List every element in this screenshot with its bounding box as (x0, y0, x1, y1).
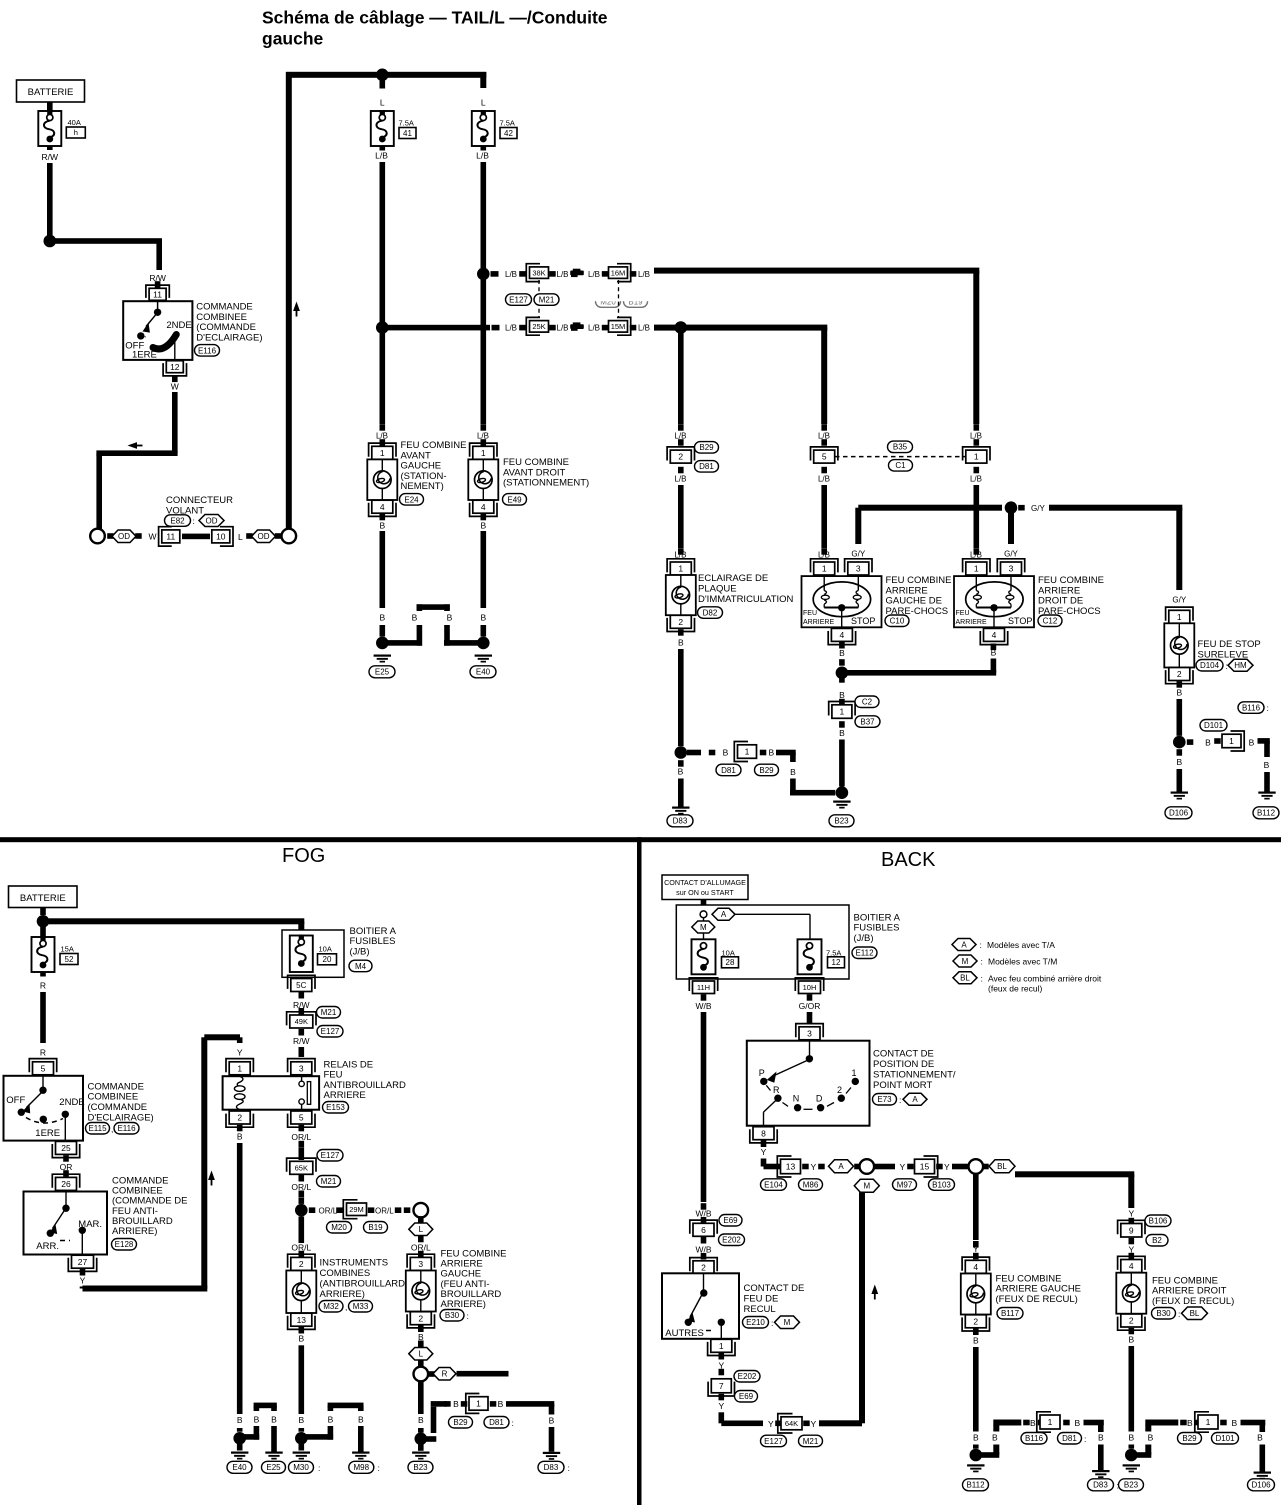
svg-text:B: B (723, 748, 729, 758)
rear fog relay connector 1 (229, 1062, 250, 1075)
dashed link B35 C1 (835, 456, 965, 458)
svg-text:D82: D82 (703, 608, 718, 617)
svg-text:M: M (784, 1318, 791, 1327)
backup lamp right B30 connector 2 (1121, 1314, 1142, 1327)
svg-text:B30: B30 (1156, 1309, 1171, 1318)
ground E40 (475, 655, 492, 657)
svg-text:B: B (678, 767, 684, 777)
svg-text:B: B (1128, 1335, 1134, 1345)
svg-text:1: 1 (719, 1341, 724, 1351)
svg-text:COMBINEE: COMBINEE (88, 1092, 139, 1103)
svg-text:E127: E127 (321, 1027, 340, 1036)
svg-text:B: B (1128, 1432, 1134, 1442)
svg-text::: : (899, 1095, 901, 1105)
svg-text:L/B: L/B (638, 324, 650, 333)
connector pair row1 ovals (538, 280, 540, 318)
svg-text:B: B (298, 1415, 304, 1425)
svg-text:B: B (1098, 1433, 1104, 1443)
wire to fuse 41 (380, 80, 386, 89)
svg-text:R: R (40, 980, 46, 990)
svg-text:Y: Y (944, 1162, 950, 1172)
section separator vertical (637, 837, 642, 1505)
wire R down to switch (40, 972, 46, 977)
terminal circle W (90, 529, 105, 544)
ground E40 FOG (231, 1452, 248, 1454)
svg-text:38K: 38K (532, 268, 545, 277)
svg-text:(feux de recul): (feux de recul) (988, 983, 1042, 993)
connector 2 license plate harness (670, 450, 691, 463)
wire B backup lamp left down (973, 1347, 979, 1432)
front left combo lamp E24 connector 1 (372, 446, 393, 459)
svg-text:L/B: L/B (557, 324, 569, 333)
svg-text:D83: D83 (673, 817, 688, 826)
svg-text:R/W: R/W (293, 1036, 310, 1046)
svg-text:E115: E115 (88, 1124, 107, 1133)
svg-text:B: B (418, 1415, 424, 1425)
svg-text:B: B (1030, 1418, 1036, 1428)
svg-text:OD: OD (206, 516, 218, 525)
svg-text:2: 2 (299, 1259, 304, 1269)
inline connector 1 D101-B116 (1187, 739, 1194, 745)
svg-text:ARRIERE: ARRIERE (324, 1090, 366, 1101)
svg-text:B106: B106 (1149, 1217, 1168, 1226)
svg-text:CONTACT DE: CONTACT DE (873, 1049, 934, 1060)
svg-text:E69: E69 (723, 1216, 738, 1225)
rear bumper lamp C12 connector 1 (966, 562, 987, 575)
junction ground E25 node (376, 637, 389, 650)
svg-text:2: 2 (1177, 669, 1182, 679)
G/Y net horizontal (858, 505, 1002, 511)
inline connector 1 D81-B29 (738, 745, 757, 759)
svg-text:W: W (149, 532, 157, 542)
svg-text:ARRIERE): ARRIERE) (320, 1289, 365, 1300)
svg-text:OR/L: OR/L (375, 1206, 394, 1215)
svg-text:L/B: L/B (476, 151, 489, 161)
svg-text:B: B (1249, 737, 1255, 747)
svg-text:B29: B29 (1182, 1434, 1197, 1443)
svg-text:C10: C10 (890, 617, 905, 626)
connector 65K (290, 1161, 313, 1174)
J/B fuse box BACK (676, 905, 849, 979)
svg-text::: : (568, 1463, 570, 1473)
connector 13 (781, 1159, 801, 1174)
svg-text::: : (378, 1463, 380, 1473)
hexagon BL branch (982, 1164, 989, 1170)
svg-text:L/B: L/B (638, 270, 650, 279)
svg-text:42: 42 (504, 129, 513, 138)
connector 12 light switch (166, 361, 183, 373)
license plate lamp D82 connector 1 (670, 562, 691, 575)
svg-text:Y: Y (811, 1162, 817, 1172)
svg-text:E112: E112 (855, 949, 874, 958)
svg-text:POINT MORT: POINT MORT (873, 1080, 932, 1091)
section separator horizontal (0, 837, 1281, 842)
wire spiral cable (182, 534, 210, 540)
branch to B29 D81 inline connector (687, 750, 701, 756)
connector 26 fog switch (56, 1177, 77, 1190)
svg-text:L/B: L/B (674, 431, 686, 440)
svg-text:2: 2 (701, 1262, 706, 1272)
hexagon OD right (246, 533, 253, 539)
svg-text:5: 5 (41, 1063, 46, 1073)
svg-text:sur ON ou START: sur ON ou START (676, 888, 734, 897)
wire G/Y C10 pin3 up (855, 508, 861, 544)
svg-text:POSITION DE: POSITION DE (873, 1059, 934, 1070)
svg-text:HM: HM (1234, 661, 1247, 670)
svg-text:M4: M4 (355, 962, 367, 971)
svg-text:E127: E127 (321, 1151, 340, 1160)
connector 25 light switch FOG (56, 1141, 77, 1154)
svg-text:1: 1 (974, 452, 979, 462)
connector 49K (290, 1015, 313, 1028)
svg-text:ARRIERE): ARRIERE) (112, 1226, 157, 1237)
svg-text:D81: D81 (489, 1418, 504, 1427)
svg-text:OR/L: OR/L (291, 1182, 311, 1192)
backup lamp switch E210 box (662, 1273, 739, 1339)
svg-text:49K: 49K (295, 1017, 308, 1026)
svg-text::: : (1178, 1309, 1180, 1319)
svg-text:BACK: BACK (881, 849, 936, 871)
svg-text:M97: M97 (897, 1180, 913, 1189)
rear bumper lamp C10 connector 4 (831, 628, 852, 641)
svg-text::: : (980, 940, 982, 950)
wire license plate down (678, 328, 684, 424)
wire L/B fuse41 down (380, 146, 386, 151)
fuse 40A h (38, 111, 61, 146)
svg-text:Y: Y (900, 1162, 906, 1172)
fuse 7.5A 12 (798, 939, 822, 974)
svg-text:B: B (1187, 1418, 1193, 1428)
svg-text:Y: Y (768, 1419, 774, 1429)
svg-text:(ANTIBROUILLARD: (ANTIBROUILLARD (320, 1279, 406, 1290)
bridge to D83 FOG (421, 1436, 437, 1442)
svg-text:B: B (973, 1432, 979, 1442)
ignition switch box (662, 875, 748, 900)
svg-text::: : (1084, 1434, 1086, 1444)
svg-text:7.5A: 7.5A (399, 119, 414, 128)
connector pair row1 faded ovals M20 B19 (596, 296, 648, 308)
svg-text:16M: 16M (611, 268, 626, 277)
svg-text:1: 1 (852, 1068, 857, 1078)
wire Y row mid (875, 1164, 896, 1170)
svg-text::: : (771, 1318, 773, 1328)
svg-text:E25: E25 (266, 1463, 281, 1472)
connector 10 spiral cable (212, 530, 230, 543)
svg-text:CONTACT D'ALLUMAGE: CONTACT D'ALLUMAGE (664, 878, 746, 887)
svg-text:B: B (1257, 1433, 1263, 1443)
ground E25 FOG (265, 1452, 282, 1454)
front right combo lamp E49 connector 1 (473, 446, 494, 459)
connector 64K (781, 1417, 802, 1430)
wire L/B fuse42 down (481, 146, 487, 151)
svg-text:1: 1 (1229, 736, 1234, 746)
svg-text:L/B: L/B (376, 431, 388, 440)
svg-text:OD: OD (118, 532, 130, 541)
svg-text:B: B (549, 1415, 555, 1425)
svg-text:3: 3 (856, 564, 861, 574)
svg-text:h: h (74, 128, 78, 137)
svg-text:A: A (961, 940, 967, 949)
terminal circle BL branch (969, 1159, 984, 1174)
svg-text:B116: B116 (1242, 703, 1261, 712)
wire B license plate down (678, 649, 684, 746)
svg-text:D'ECLAIRAGE): D'ECLAIRAGE) (196, 333, 262, 344)
svg-text:L/B: L/B (970, 431, 982, 440)
svg-text:B: B (1264, 760, 1270, 770)
wire B lamp E24 down (380, 531, 386, 608)
connector 8 park switch (753, 1127, 774, 1140)
license plate lamp D82 connector 2 (670, 615, 691, 628)
svg-text:2: 2 (1129, 1316, 1134, 1326)
svg-text:G/Y: G/Y (851, 550, 865, 559)
svg-text:2NDE: 2NDE (166, 320, 191, 331)
svg-text:B: B (839, 648, 845, 658)
ground E25 (374, 655, 391, 657)
svg-text:(FEUX DE RECUL): (FEUX DE RECUL) (1152, 1296, 1234, 1307)
svg-text:B: B (298, 1334, 304, 1344)
hexagon OD left (107, 533, 114, 539)
connector 5 light switch FOG (33, 1062, 54, 1075)
rear bumper lamp C12 body (954, 576, 1034, 627)
svg-text::: : (1267, 703, 1269, 713)
svg-text:10H: 10H (803, 983, 817, 992)
svg-text:D106: D106 (1169, 809, 1189, 818)
ground B23 (833, 801, 850, 803)
fuse 42 7.5A (472, 111, 495, 146)
junction row2 on fuse41 wire (376, 321, 389, 334)
wire B to ground D106 (1177, 749, 1183, 756)
svg-text:2: 2 (837, 1085, 842, 1095)
svg-text:B: B (480, 521, 486, 531)
junction B23 FOG node (415, 1433, 428, 1446)
svg-text:B23: B23 (834, 817, 849, 826)
svg-text:26: 26 (61, 1179, 71, 1189)
svg-text:B103: B103 (932, 1180, 951, 1189)
rear fog lamp relay E153 (223, 1076, 320, 1110)
svg-text:L/B: L/B (477, 431, 489, 440)
svg-text:B: B (678, 638, 684, 648)
svg-text:2: 2 (973, 1316, 978, 1326)
svg-text:M86: M86 (803, 1180, 819, 1189)
svg-text:BATTERIE: BATTERIE (28, 87, 74, 98)
svg-text:D104: D104 (1200, 661, 1220, 670)
svg-text:gauche: gauche (262, 29, 324, 49)
bridge wire B C10-C12 grounds (842, 670, 996, 676)
svg-text:1ERE: 1ERE (35, 1128, 60, 1139)
junction stop lamp ground node (1173, 736, 1186, 749)
wire C10 pin1 down (821, 485, 827, 548)
bridge to M98 (301, 1434, 333, 1440)
svg-text:4: 4 (992, 630, 997, 640)
connector 10H (799, 981, 821, 994)
svg-text:11: 11 (153, 289, 162, 299)
svg-text:D81: D81 (721, 766, 736, 775)
svg-text:7.5A: 7.5A (826, 948, 841, 957)
wire B stop lamp down (1177, 699, 1183, 736)
svg-text:L: L (380, 98, 385, 108)
hexagon R with feed (428, 1371, 435, 1377)
svg-text:28: 28 (726, 958, 735, 967)
svg-text:B29: B29 (453, 1418, 468, 1427)
row2 L/B inline connectors (382, 325, 490, 331)
svg-text:BL: BL (997, 1162, 1007, 1171)
svg-text:E104: E104 (764, 1180, 783, 1189)
ground M98 (352, 1452, 369, 1454)
svg-text:(COMMANDE: (COMMANDE (88, 1102, 148, 1113)
backup lamp right B30 (1116, 1273, 1146, 1314)
svg-text:A: A (721, 910, 727, 919)
svg-text:E73: E73 (877, 1095, 892, 1104)
svg-text:2NDE: 2NDE (59, 1097, 84, 1108)
svg-text:ARRIERE: ARRIERE (956, 619, 987, 626)
right column connector 1 (966, 450, 987, 463)
wire B relay pin2 down (237, 1143, 243, 1414)
svg-text:B: B (790, 767, 796, 777)
connector 1 backup switch (711, 1339, 732, 1352)
svg-text:13: 13 (297, 1315, 307, 1325)
wire G/OR down (807, 1012, 813, 1024)
svg-text:D101: D101 (1215, 1434, 1235, 1443)
svg-text:4: 4 (481, 502, 486, 512)
svg-text:Y: Y (811, 1419, 817, 1429)
svg-text:29M: 29M (349, 1205, 364, 1214)
hexagon M internal (703, 918, 705, 921)
hexagon A row (829, 1160, 854, 1173)
svg-text::: : (467, 1311, 469, 1321)
svg-text:13: 13 (786, 1162, 796, 1172)
ovals E127 M21 BACK (761, 1435, 787, 1447)
svg-text:E202: E202 (738, 1372, 757, 1381)
svg-text:D101: D101 (1204, 721, 1224, 730)
svg-text:AUTRES: AUTRES (665, 1328, 704, 1339)
svg-text:M21: M21 (539, 295, 555, 304)
wire W to spiral cable (172, 392, 178, 453)
svg-text:Schéma de câblage — TAIL/L —/C: Schéma de câblage — TAIL/L —/Conduite (262, 8, 608, 28)
svg-text:B2: B2 (1152, 1236, 1162, 1245)
svg-text:ECLAIRAGE DE: ECLAIRAGE DE (698, 573, 768, 584)
svg-text:N: N (793, 1094, 800, 1104)
svg-text:B112: B112 (966, 1481, 985, 1490)
svg-text:(J/B): (J/B) (854, 933, 874, 944)
svg-text:L/B: L/B (818, 474, 830, 483)
svg-text:5: 5 (822, 452, 827, 462)
svg-text:2: 2 (418, 1313, 423, 1323)
instruments wire down (299, 1217, 305, 1244)
svg-text:C12: C12 (1043, 617, 1058, 626)
svg-text:STOP: STOP (1008, 616, 1032, 626)
wire Y fog switch to relay (80, 1287, 86, 1289)
svg-text:15A: 15A (61, 945, 74, 954)
svg-text:1: 1 (678, 564, 683, 574)
svg-text:M21: M21 (803, 1437, 819, 1446)
svg-text:ARRIERE: ARRIERE (803, 619, 834, 626)
wire M down to 64K row (859, 1192, 865, 1423)
junction B23 node top (836, 786, 849, 799)
svg-text:M: M (700, 923, 707, 932)
svg-text:FUSIBLES: FUSIBLES (350, 936, 396, 947)
front right combo lamp E49 connector 4 (473, 500, 494, 513)
terminal circle L bus (282, 529, 297, 544)
svg-text:4: 4 (973, 1262, 978, 1272)
svg-text:INSTRUMENTS: INSTRUMENTS (320, 1257, 389, 1268)
svg-text:4: 4 (1129, 1261, 1134, 1271)
svg-text:E40: E40 (476, 668, 491, 677)
rear bumper lamp C12 connector 4 (984, 628, 1005, 641)
row1 corner down to connector 1 (973, 271, 979, 424)
svg-text:2: 2 (678, 452, 683, 462)
svg-text:1: 1 (840, 707, 845, 717)
stop lamp HM connector 2 (1169, 668, 1190, 681)
ground B23 BACK (1123, 1464, 1140, 1466)
svg-text:Y: Y (718, 1401, 724, 1411)
svg-text:1: 1 (380, 448, 385, 458)
svg-text:A: A (838, 1162, 844, 1171)
svg-text:BATTERIE: BATTERIE (20, 893, 66, 904)
junction B112 node (970, 1449, 983, 1462)
ground D83 BACK (1092, 1470, 1109, 1472)
svg-text:RECUL: RECUL (744, 1304, 776, 1315)
svg-text:41: 41 (403, 129, 412, 138)
svg-text:ARR.: ARR. (36, 1241, 59, 1252)
svg-text:Y: Y (80, 1275, 86, 1285)
inline connector 1 B116-D81 (1040, 1415, 1060, 1429)
svg-text:10A: 10A (722, 948, 735, 957)
svg-text:2: 2 (237, 1113, 242, 1123)
svg-text:Y: Y (1128, 1208, 1134, 1218)
connector 11H (693, 981, 715, 994)
svg-text:Avec feu combiné arrière droit: Avec feu combiné arrière droit (988, 973, 1102, 983)
svg-text:12: 12 (170, 362, 180, 372)
svg-text:FEU DE: FEU DE (744, 1294, 779, 1305)
svg-text:CONTACT DE: CONTACT DE (744, 1283, 805, 1294)
backup lamp B117 connector 4 (965, 1260, 986, 1273)
svg-text:3: 3 (418, 1259, 423, 1269)
svg-text:D106: D106 (1251, 1481, 1271, 1490)
ovals row E104 M86 M97 B103 (761, 1179, 787, 1191)
svg-text:FEU COMBINE: FEU COMBINE (996, 1273, 1062, 1284)
wire W/B down (701, 1012, 707, 1202)
svg-text:NEMENT): NEMENT) (401, 481, 444, 492)
top bus horizontal (286, 72, 486, 78)
instrument cluster connector 2 (291, 1257, 312, 1270)
svg-text:Modèles avec T/A: Modèles avec T/A (987, 940, 1055, 950)
svg-text:9: 9 (1129, 1225, 1134, 1235)
svg-text:M30: M30 (293, 1463, 309, 1472)
wire Y backup lamp left (973, 1174, 979, 1240)
svg-text:M32: M32 (323, 1302, 339, 1311)
junction instruments tap (295, 1204, 308, 1217)
bridge from B23 to right (1131, 1452, 1151, 1458)
svg-text:PLAQUE: PLAQUE (698, 584, 737, 595)
svg-text:E116: E116 (198, 346, 217, 355)
svg-text:L: L (419, 1225, 424, 1234)
svg-text:2: 2 (678, 617, 683, 627)
svg-text:11: 11 (166, 532, 175, 542)
svg-text:OR/L: OR/L (319, 1206, 338, 1215)
wire B C10 to C2 connector (839, 676, 845, 683)
left bus wire L (286, 72, 292, 529)
svg-text:L/B: L/B (588, 324, 600, 333)
front left combo lamp E24 (367, 459, 397, 500)
svg-text:B: B (271, 1414, 277, 1424)
svg-text:6: 6 (701, 1225, 706, 1235)
connector 11 light switch (149, 288, 166, 300)
bridge from B112 to right (976, 1452, 1000, 1458)
svg-text:12: 12 (832, 958, 841, 967)
svg-text:3: 3 (807, 1028, 812, 1038)
hexagon A internal (712, 908, 735, 920)
svg-text:STATIONNEMENT/: STATIONNEMENT/ (873, 1070, 956, 1081)
